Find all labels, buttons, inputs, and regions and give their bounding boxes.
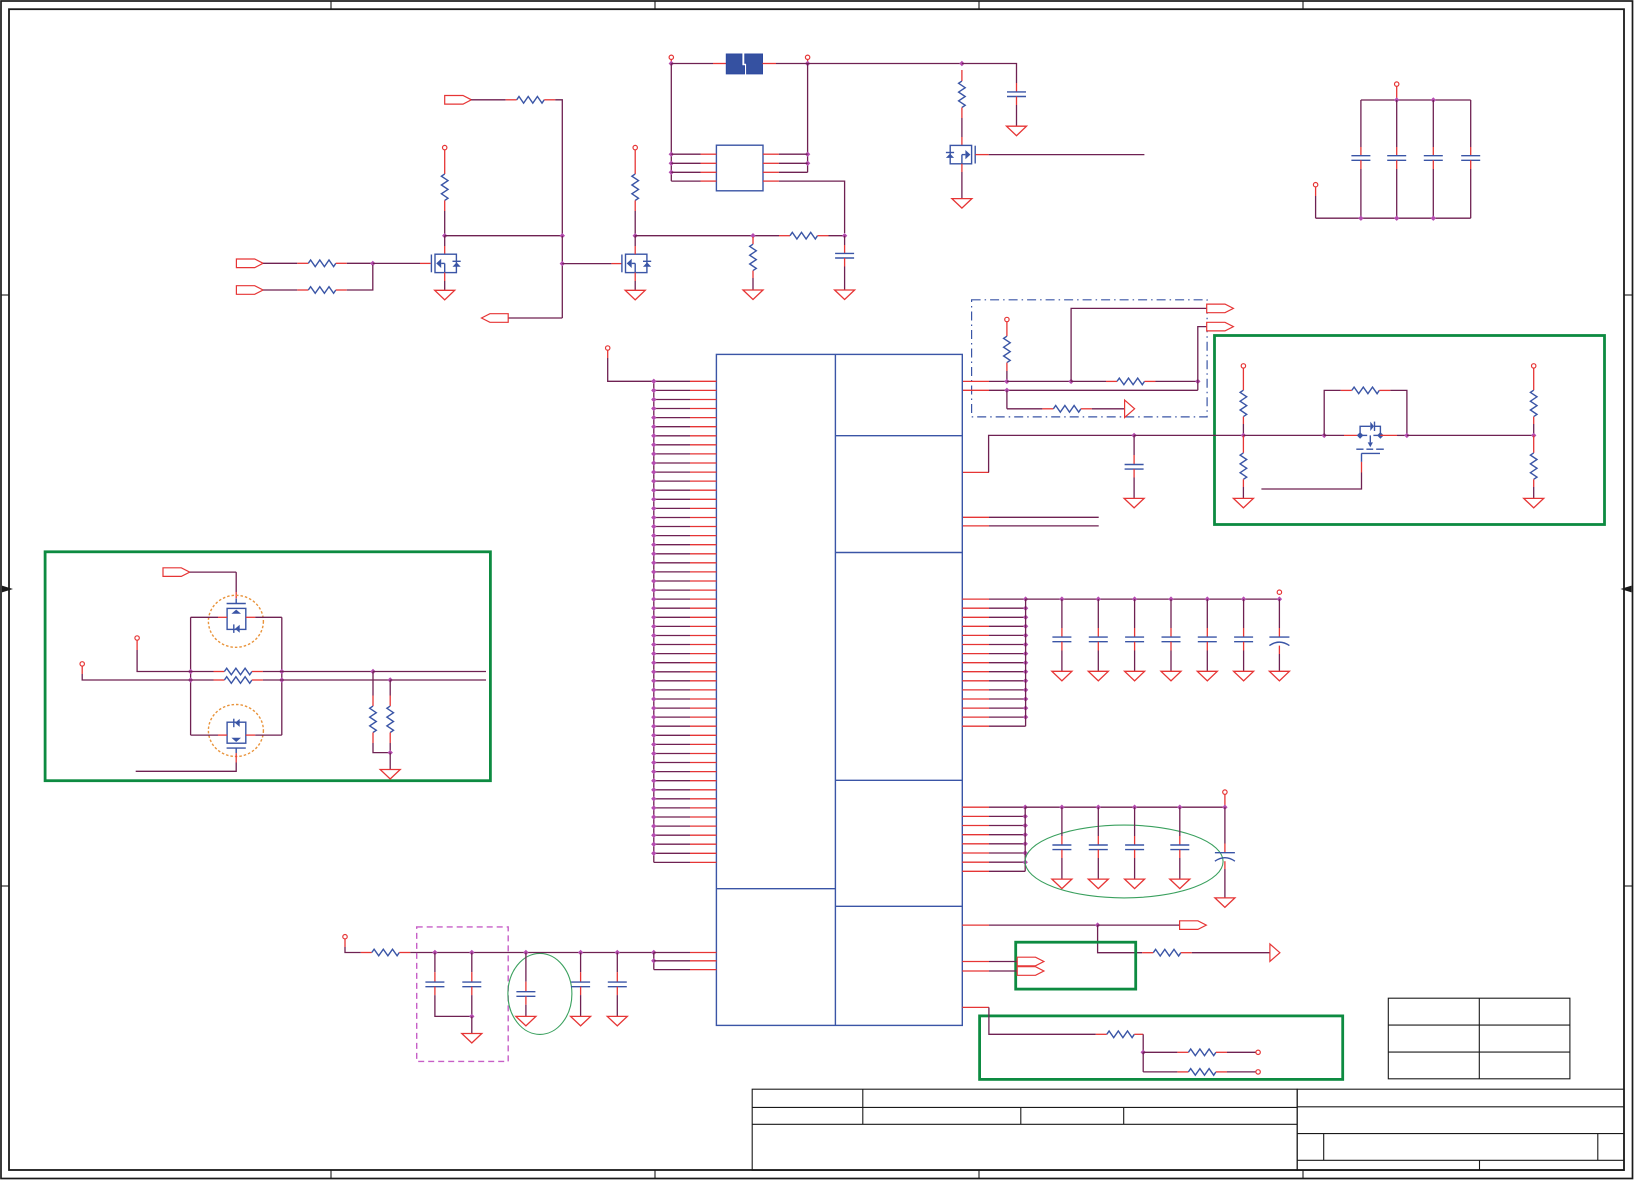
ground <box>1215 898 1235 908</box>
wire <box>1533 487 1535 498</box>
pin wire <box>654 644 690 646</box>
pin wire <box>654 834 690 836</box>
pin stub <box>444 150 446 174</box>
pin stub <box>235 753 237 762</box>
pin wire <box>654 635 690 637</box>
pin stub <box>962 389 989 391</box>
pin wire <box>654 389 690 391</box>
wire <box>1315 196 1317 218</box>
pin stub <box>961 164 963 172</box>
junction <box>651 705 656 710</box>
junction <box>651 760 656 765</box>
pin stub <box>1006 363 1008 371</box>
wire <box>1092 408 1125 410</box>
node A <box>442 233 447 238</box>
pin stub <box>690 526 716 528</box>
pin wire <box>989 680 1026 682</box>
pin stub <box>962 1006 989 1008</box>
port arrow RX <box>1270 944 1280 961</box>
capacitor C19 <box>1089 844 1108 846</box>
highlight box (green) <box>1215 336 1605 525</box>
wire <box>190 617 192 735</box>
wire <box>989 961 1017 963</box>
wire <box>137 650 191 672</box>
wire <box>136 763 237 772</box>
wire <box>389 743 391 753</box>
pin wire <box>654 544 690 546</box>
wire <box>1098 924 1180 926</box>
pin stub <box>690 544 716 546</box>
pin stub <box>1533 417 1535 424</box>
pin stub <box>962 870 989 872</box>
resistor R3 <box>517 97 545 104</box>
junction <box>651 497 656 502</box>
pin wire <box>989 634 1026 636</box>
capacitor C18 <box>1052 844 1071 846</box>
pin wire <box>654 689 690 691</box>
pin stub <box>690 861 716 863</box>
pin stub <box>962 380 989 382</box>
pin wire <box>989 616 1026 618</box>
wire <box>807 64 809 173</box>
pin stub <box>962 806 989 808</box>
capacitor C25 <box>516 991 535 993</box>
pin stub <box>252 679 263 681</box>
pin stub <box>962 625 989 627</box>
junction <box>651 533 656 538</box>
ground <box>571 1016 591 1026</box>
transistor Q1 <box>431 254 460 272</box>
pin stub <box>818 235 829 237</box>
ground <box>835 290 855 300</box>
pin wire <box>989 716 1026 718</box>
wire <box>561 236 563 318</box>
pin stub <box>962 852 989 854</box>
wire <box>1390 390 1407 435</box>
wire <box>961 172 963 199</box>
pin stub <box>763 63 777 65</box>
junction <box>651 742 656 747</box>
port PACK+ <box>805 55 809 59</box>
capacitor C24 <box>462 981 481 983</box>
wire <box>752 278 754 290</box>
border tick <box>1 885 9 887</box>
wire <box>345 947 361 953</box>
pin wire <box>654 489 690 491</box>
node BR2 <box>1141 1050 1146 1055</box>
wire <box>671 162 700 164</box>
node S2 <box>1322 433 1327 438</box>
pin stub <box>962 662 989 664</box>
pin stub <box>962 924 989 926</box>
pin stub <box>690 444 716 446</box>
junction <box>1023 705 1028 710</box>
node W2A <box>1004 388 1009 393</box>
pin stub <box>962 516 989 518</box>
pin stub <box>690 771 716 773</box>
pin stub <box>961 137 963 145</box>
pin wire <box>989 815 1025 817</box>
junction <box>651 569 656 574</box>
port BATT+ <box>669 55 673 59</box>
ground <box>380 770 400 780</box>
resistor R5 <box>632 174 639 200</box>
pin stub <box>136 640 138 650</box>
highlight circle (orange) <box>208 595 263 647</box>
pin stub <box>1216 1071 1227 1073</box>
junction <box>279 677 284 682</box>
pin stub <box>1206 628 1208 637</box>
resistor R2 <box>308 287 336 294</box>
capacitor C26 <box>571 981 590 983</box>
resistor R15 <box>1530 390 1537 416</box>
wire <box>263 679 282 681</box>
junction <box>651 515 656 520</box>
wire <box>525 953 527 982</box>
pin stub <box>1341 389 1352 391</box>
junction <box>651 669 656 674</box>
pin wire <box>654 480 690 482</box>
port DRV <box>163 568 190 577</box>
capacitor C2 <box>1007 91 1026 93</box>
pin wire <box>654 625 690 627</box>
pin stub <box>690 607 716 609</box>
pin stub <box>690 798 716 800</box>
wire <box>1360 100 1362 147</box>
ground <box>435 290 455 300</box>
ground <box>1170 879 1190 889</box>
highlight box (green) <box>45 552 490 781</box>
border center arrow right <box>1621 586 1632 593</box>
wire <box>1007 408 1043 410</box>
wire <box>634 211 636 236</box>
pin wire <box>989 834 1025 836</box>
wire <box>1324 434 1344 436</box>
port EN <box>445 96 472 105</box>
wire <box>471 953 473 973</box>
pin stub <box>1278 646 1280 654</box>
wire <box>1316 217 1471 219</box>
ground <box>1125 671 1145 681</box>
pin wire <box>654 598 690 600</box>
wire <box>1243 651 1245 672</box>
ground <box>1088 879 1108 889</box>
pin wire <box>654 743 690 745</box>
junction <box>1023 832 1028 837</box>
pin stub <box>611 263 622 265</box>
ground <box>1052 671 1072 681</box>
bus wire <box>1024 807 1026 871</box>
node B <box>560 233 565 238</box>
pin wire <box>654 662 690 664</box>
highlight ellipse (green) <box>1025 825 1223 898</box>
pin stub <box>1061 628 1063 637</box>
junction <box>651 851 656 856</box>
resistor R22 <box>1153 949 1181 956</box>
pin wire <box>989 607 1026 609</box>
wire <box>444 236 446 246</box>
pin stub <box>962 689 989 691</box>
rail wire <box>1026 598 1280 600</box>
capacitor C10 <box>1125 464 1144 466</box>
resistor R17 <box>224 668 252 675</box>
wire <box>1396 169 1398 218</box>
pin stub <box>1360 147 1362 156</box>
junction <box>651 478 656 483</box>
ground <box>952 199 972 209</box>
ground <box>1524 498 1544 508</box>
junction <box>651 397 656 402</box>
junction <box>651 842 656 847</box>
wire <box>1242 424 1244 435</box>
pin wire <box>654 453 690 455</box>
pin stub <box>336 262 347 264</box>
wire <box>1143 1051 1177 1053</box>
node S1 <box>1241 433 1246 438</box>
resistor R16 <box>1530 453 1537 479</box>
pin stub <box>634 273 636 281</box>
port OUT1 <box>1207 304 1234 313</box>
pin stub <box>1081 408 1092 410</box>
junction <box>523 950 528 955</box>
pin stub <box>214 679 225 681</box>
pin stub <box>471 972 473 982</box>
wire <box>1324 390 1341 435</box>
transistor Q6 <box>1356 422 1384 462</box>
transistor Q3 <box>946 145 975 163</box>
pin wire <box>654 798 690 800</box>
pin wire <box>654 507 690 509</box>
wire <box>190 571 237 573</box>
pin stub <box>690 535 716 537</box>
junction <box>1394 216 1399 221</box>
wire <box>1134 599 1136 628</box>
pin stub <box>962 471 989 473</box>
pin stub <box>690 753 716 755</box>
junction <box>1023 714 1028 719</box>
port TX <box>1180 921 1207 930</box>
pin stub <box>690 743 716 745</box>
pin stub <box>1061 642 1063 651</box>
wire <box>844 236 846 245</box>
pin stub <box>962 680 989 682</box>
pin stub <box>1006 322 1008 337</box>
wire <box>989 525 1099 527</box>
pin stub <box>399 952 410 954</box>
pin stub <box>962 644 989 646</box>
port ID2 <box>1256 1070 1260 1074</box>
junction <box>1358 216 1363 221</box>
resistor R18 <box>224 677 252 684</box>
wire <box>989 970 1017 972</box>
junction <box>1023 850 1028 855</box>
ground <box>1124 498 1144 508</box>
junction <box>651 833 656 838</box>
pin stub <box>580 972 582 982</box>
title block right table <box>1297 1089 1624 1170</box>
wire <box>1143 1071 1177 1073</box>
junction <box>651 587 656 592</box>
wire <box>282 679 390 681</box>
pin stub <box>962 843 989 845</box>
wire <box>471 99 506 101</box>
wire <box>1156 380 1198 382</box>
pin stub <box>1360 160 1362 169</box>
junction <box>651 796 656 801</box>
junction <box>651 388 656 393</box>
wire <box>435 995 472 1016</box>
pin stub <box>763 180 779 182</box>
pin wire <box>654 725 690 727</box>
pin stub <box>690 598 716 600</box>
resistor R1 <box>308 260 336 267</box>
pin stub <box>962 970 989 972</box>
pin stub <box>1134 1033 1143 1035</box>
wire <box>1470 169 1472 218</box>
pin stub <box>1432 160 1434 169</box>
wire <box>989 516 1099 518</box>
junction <box>651 751 656 756</box>
junction <box>1132 805 1137 810</box>
pin wire <box>654 789 690 791</box>
junction <box>959 61 964 66</box>
pin stub <box>218 734 227 736</box>
wire <box>1016 105 1018 126</box>
junction <box>651 714 656 719</box>
pin stub <box>444 246 446 254</box>
junction <box>469 1014 474 1019</box>
capacitor C16 <box>1234 636 1253 638</box>
pin wire <box>989 662 1026 664</box>
pin stub <box>690 680 716 682</box>
wire <box>471 1016 473 1033</box>
pin stub <box>297 289 308 291</box>
title block left table <box>752 1089 1297 1170</box>
ground <box>607 1016 627 1026</box>
wire <box>779 171 808 173</box>
junction <box>1132 596 1137 601</box>
node E <box>842 233 847 238</box>
junction <box>1023 860 1028 865</box>
junction <box>1205 596 1210 601</box>
pin stub <box>1133 455 1135 465</box>
pin wire <box>654 498 690 500</box>
ground <box>462 1034 482 1044</box>
pin stub <box>1243 642 1245 651</box>
ic U1 <box>716 354 962 1025</box>
resistor R7 <box>790 232 818 239</box>
junction <box>651 560 656 565</box>
node gate2 junction <box>560 261 565 266</box>
node W1A <box>1004 379 1009 384</box>
wire <box>235 572 237 592</box>
port VCC2 <box>633 145 637 149</box>
pin wire <box>654 825 690 827</box>
resistor R25 <box>1188 1069 1216 1076</box>
wire <box>1170 651 1172 672</box>
junction <box>1277 596 1282 601</box>
ground <box>1161 671 1181 681</box>
port GND_S <box>1313 183 1317 187</box>
pin stub <box>1242 417 1244 424</box>
pin stub <box>961 108 963 119</box>
revision table <box>1388 998 1570 1079</box>
pin stub <box>1145 380 1156 382</box>
pin stub <box>690 589 716 591</box>
wire <box>1170 599 1172 628</box>
junction <box>651 651 656 656</box>
junction <box>651 724 656 729</box>
pin stub <box>297 262 308 264</box>
pin stub <box>372 696 374 707</box>
junction <box>669 170 674 175</box>
pin stub <box>1242 479 1244 487</box>
wire <box>263 289 297 291</box>
junction <box>1394 97 1399 102</box>
junction <box>651 624 656 629</box>
wire <box>389 680 391 696</box>
node W1C <box>1195 379 1200 384</box>
pin stub <box>634 150 636 174</box>
resistor R21 <box>372 949 400 956</box>
port VIO <box>343 935 347 939</box>
wire <box>82 674 190 680</box>
node F1B <box>805 61 810 66</box>
pin stub <box>690 571 716 573</box>
wire <box>1361 99 1471 101</box>
junction <box>651 787 656 792</box>
wire <box>1142 1034 1144 1052</box>
capacitor C22 (polarized) <box>1215 852 1235 854</box>
pin stub <box>1061 850 1063 858</box>
wire <box>1396 100 1398 147</box>
resistor R23 <box>1107 1031 1135 1038</box>
resistor R13 <box>1240 453 1247 479</box>
border tick <box>978 1 980 9</box>
pin stub <box>471 987 473 995</box>
pin stub <box>1380 434 1397 436</box>
pin stub <box>1134 628 1136 637</box>
pin stub <box>1432 147 1434 156</box>
pin stub <box>690 852 716 854</box>
port SENSE+ <box>135 636 139 640</box>
junction <box>1023 814 1028 819</box>
port IN2 <box>236 286 263 295</box>
pin stub <box>844 245 846 253</box>
node W1B <box>1068 379 1073 384</box>
wire <box>1134 858 1136 879</box>
pin stub <box>690 635 716 637</box>
junction <box>370 669 375 674</box>
border tick <box>654 1 656 9</box>
pin stub <box>634 200 636 211</box>
wire <box>191 679 214 681</box>
ground <box>1269 671 1289 681</box>
pin stub <box>690 553 716 555</box>
ground <box>625 290 645 300</box>
junction <box>1023 624 1028 629</box>
pin stub <box>690 952 716 954</box>
capacitor C13 <box>1125 636 1144 638</box>
port SDA <box>1017 967 1044 976</box>
resistor R24 <box>1188 1049 1216 1056</box>
wire <box>562 263 611 265</box>
highlight circle (orange) <box>208 705 263 757</box>
wire <box>1061 807 1063 836</box>
wire <box>1061 599 1063 628</box>
resistor R9 <box>1004 336 1011 362</box>
pin stub <box>372 733 374 744</box>
